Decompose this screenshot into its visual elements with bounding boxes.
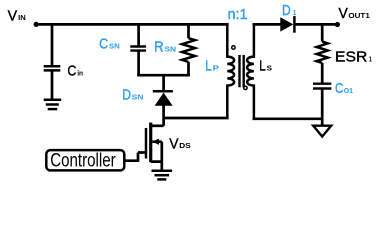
node VIN terminal dot	[34, 22, 39, 27]
diode D1	[280, 16, 294, 33]
wire CO1 to output ground	[321, 89, 324, 126]
resistor ESR1	[317, 42, 328, 63]
label Cin	[67, 62, 83, 79]
wire snubber bottom rail	[137, 74, 190, 77]
polarity dot primary	[232, 46, 235, 49]
ground input earth	[44, 100, 62, 109]
wire DSN cathode stub	[162, 75, 165, 91]
svg-text:1: 1	[369, 55, 372, 64]
wire DSN anode down through drain junction	[162, 105, 165, 126]
svg-text:V: V	[8, 7, 18, 24]
svg-text:Controller: Controller	[50, 151, 116, 172]
wire ESR branch top	[321, 24, 324, 41]
label VDS	[169, 135, 191, 152]
svg-text:DS: DS	[179, 141, 191, 150]
svg-text:S: S	[267, 63, 272, 72]
wire CSN branch	[137, 24, 140, 76]
wire secondary bottom rail	[253, 117, 323, 120]
label LS	[259, 57, 272, 74]
label RSN	[154, 39, 176, 56]
diode DSN	[153, 91, 173, 106]
ground output open triangle	[313, 126, 331, 137]
wire RSN branch	[187, 24, 190, 76]
ground MOSFET source earth	[152, 171, 173, 180]
svg-text:OUT1: OUT1	[348, 11, 369, 20]
label VOUT1	[339, 5, 370, 22]
svg-text:C: C	[99, 36, 108, 53]
svg-text:L: L	[259, 57, 265, 74]
svg-text:V: V	[339, 5, 348, 22]
wire top rail from VIN to transformer primary	[36, 23, 229, 26]
label D1	[282, 2, 296, 19]
svg-text:C: C	[335, 80, 344, 97]
capacitor CO1	[313, 84, 331, 89]
svg-text:D: D	[282, 2, 291, 19]
label ESR1	[335, 49, 372, 66]
svg-text:D: D	[122, 87, 131, 104]
transformer core	[240, 55, 244, 87]
svg-text:O1: O1	[344, 86, 353, 95]
wire secondary top to D1 anode	[253, 23, 281, 26]
resistor RSN	[182, 38, 195, 62]
label LP	[205, 57, 219, 74]
wire drain junction to primary bottom	[164, 117, 229, 120]
svg-text:C: C	[67, 62, 76, 79]
controller box	[46, 150, 124, 172]
label DSN	[122, 87, 143, 104]
wire Cin branch	[51, 24, 54, 99]
svg-text:in: in	[77, 68, 83, 77]
label CO1	[335, 80, 353, 97]
svg-text:R: R	[154, 39, 164, 56]
wire D1 cathode to VOUT1	[294, 23, 337, 26]
svg-text:P: P	[213, 63, 219, 72]
svg-text:L: L	[205, 57, 211, 74]
svg-text:V: V	[169, 135, 178, 152]
svg-text:ESR: ESR	[335, 49, 367, 66]
svg-text:1: 1	[293, 8, 297, 17]
transformer secondary winding LS	[247, 23, 254, 120]
transistor Q1 MOSFET	[146, 123, 164, 170]
transformer primary winding LP	[227, 23, 234, 118]
svg-text:n:1: n:1	[228, 6, 248, 23]
node VOUT1 terminal dot	[335, 22, 340, 27]
svg-text:IN: IN	[18, 13, 26, 22]
wire gate lead from controller	[124, 153, 147, 162]
wire ESR to CO1	[321, 63, 324, 84]
capacitor Cin	[44, 66, 61, 70]
polarity dot secondary	[244, 86, 247, 89]
svg-text:SN: SN	[132, 92, 144, 101]
label CSN	[99, 36, 120, 53]
svg-text:SN: SN	[164, 44, 176, 53]
label VIN	[8, 7, 26, 24]
svg-text:SN: SN	[109, 42, 120, 51]
capacitor CSN	[130, 47, 146, 51]
